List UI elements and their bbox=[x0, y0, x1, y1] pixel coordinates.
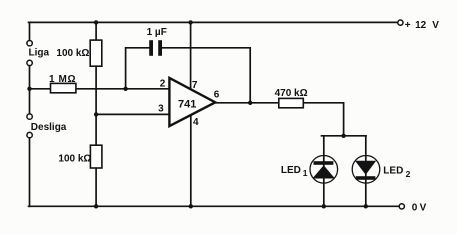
svg-text:6: 6 bbox=[214, 89, 220, 100]
terminal 0V open circle bbox=[399, 204, 404, 209]
LED1 cathode bar (top) bbox=[314, 161, 334, 165]
LED1 anode triangle pointing up bbox=[312, 165, 335, 178]
junction LED bar / 470k feed bbox=[341, 134, 345, 138]
switch terminal Liga top circle bbox=[27, 41, 32, 46]
junction 0V rail / pin 4 bbox=[189, 204, 193, 208]
wire output pin 6 to 470k resistor bbox=[215, 102, 278, 104]
switch terminal Liga bottom circle bbox=[27, 60, 32, 65]
LED2 cathode bar (bottom) bbox=[356, 176, 376, 180]
junction node buttons / 1M bbox=[27, 87, 31, 91]
LED1 circle bbox=[310, 156, 338, 184]
wire LED1 vertical branch down to 0V rail bbox=[323, 136, 325, 207]
svg-text:LED: LED bbox=[383, 166, 403, 177]
capacitor C1 1 uF plates bbox=[149, 40, 162, 56]
LED2 circle bbox=[352, 156, 380, 184]
junction divider / pin 3 bbox=[94, 112, 98, 116]
LED2 anode triangle pointing down bbox=[355, 161, 376, 175]
wire feedback from pin-2 node up to capacitor left plate bbox=[126, 48, 150, 89]
terminal +12V open circle bbox=[398, 20, 403, 25]
svg-text:7: 7 bbox=[192, 80, 198, 91]
resistor R1 100 kOhm (upper, from +12V) bbox=[90, 40, 102, 66]
svg-text:12: 12 bbox=[415, 20, 427, 31]
junction pin-2 node / feedback capacitor bbox=[123, 87, 127, 91]
switch terminal Desliga top circle bbox=[27, 114, 32, 119]
svg-text:3: 3 bbox=[158, 104, 164, 115]
junction output / feedback bbox=[248, 101, 252, 105]
wire Desliga bottom terminal down to 0V rail bbox=[29, 138, 31, 206]
svg-text:V: V bbox=[420, 203, 427, 214]
resistor R4 470 kOhm bbox=[279, 98, 304, 107]
wire pin-2 node: buttons junction through 1M to op-amp pin 2 bbox=[30, 88, 170, 90]
svg-text:Desliga: Desliga bbox=[31, 122, 67, 133]
wire pin 4 down to 0V rail bbox=[190, 115, 192, 206]
op-amp U1 741 triangle bbox=[169, 78, 215, 126]
svg-text:V: V bbox=[432, 20, 439, 31]
svg-text:4: 4 bbox=[193, 117, 199, 128]
svg-text:100 kΩ: 100 kΩ bbox=[58, 154, 91, 165]
switch terminal Desliga bottom circle bbox=[27, 132, 32, 137]
svg-text:100 kΩ: 100 kΩ bbox=[56, 48, 89, 59]
svg-text:2: 2 bbox=[160, 79, 166, 90]
svg-text:Liga: Liga bbox=[29, 48, 50, 59]
svg-text:LED: LED bbox=[281, 165, 301, 176]
svg-text:+: + bbox=[405, 20, 411, 31]
wire left drop from +12V rail to Liga top terminal bbox=[29, 22, 31, 40]
junction 0V rail / LED2 bbox=[364, 204, 368, 208]
junction 0V rail / divider bbox=[94, 204, 98, 208]
svg-text:1 µF: 1 µF bbox=[147, 27, 167, 38]
svg-text:2: 2 bbox=[406, 169, 411, 179]
wire LED2 vertical branch down to 0V rail bbox=[365, 136, 367, 207]
junction top rail / R1 divider bbox=[94, 20, 98, 24]
wire pin 3 input from divider junction bbox=[96, 113, 169, 115]
svg-text:1 MΩ: 1 MΩ bbox=[49, 74, 76, 85]
wire from capacitor right plate right and down to output node bbox=[162, 48, 250, 103]
wire LED branch top bar bbox=[322, 135, 367, 137]
svg-text:0: 0 bbox=[412, 203, 418, 214]
svg-text:470 kΩ: 470 kΩ bbox=[275, 88, 308, 99]
resistor R2 100 kOhm (lower, to 0V) bbox=[90, 145, 102, 168]
wire pin 7 up to +12V rail bbox=[190, 22, 192, 89]
wire 470k resistor right then down to LED branch bbox=[303, 103, 343, 136]
wire 0V bottom rail bbox=[29, 205, 400, 207]
svg-text:741: 741 bbox=[178, 99, 196, 111]
svg-text:1: 1 bbox=[303, 168, 308, 178]
wire +12V top rail bbox=[29, 21, 398, 23]
wire Liga bottom terminal down to Desliga top terminal bbox=[29, 66, 31, 114]
resistor R3 1 MOhm bbox=[51, 83, 76, 92]
junction top rail / pin 7 bbox=[188, 20, 192, 24]
junction 0V rail / LED1 bbox=[322, 204, 326, 208]
wire divider branch from +12V rail through both 100k resistors to 0V rail bbox=[95, 22, 97, 206]
